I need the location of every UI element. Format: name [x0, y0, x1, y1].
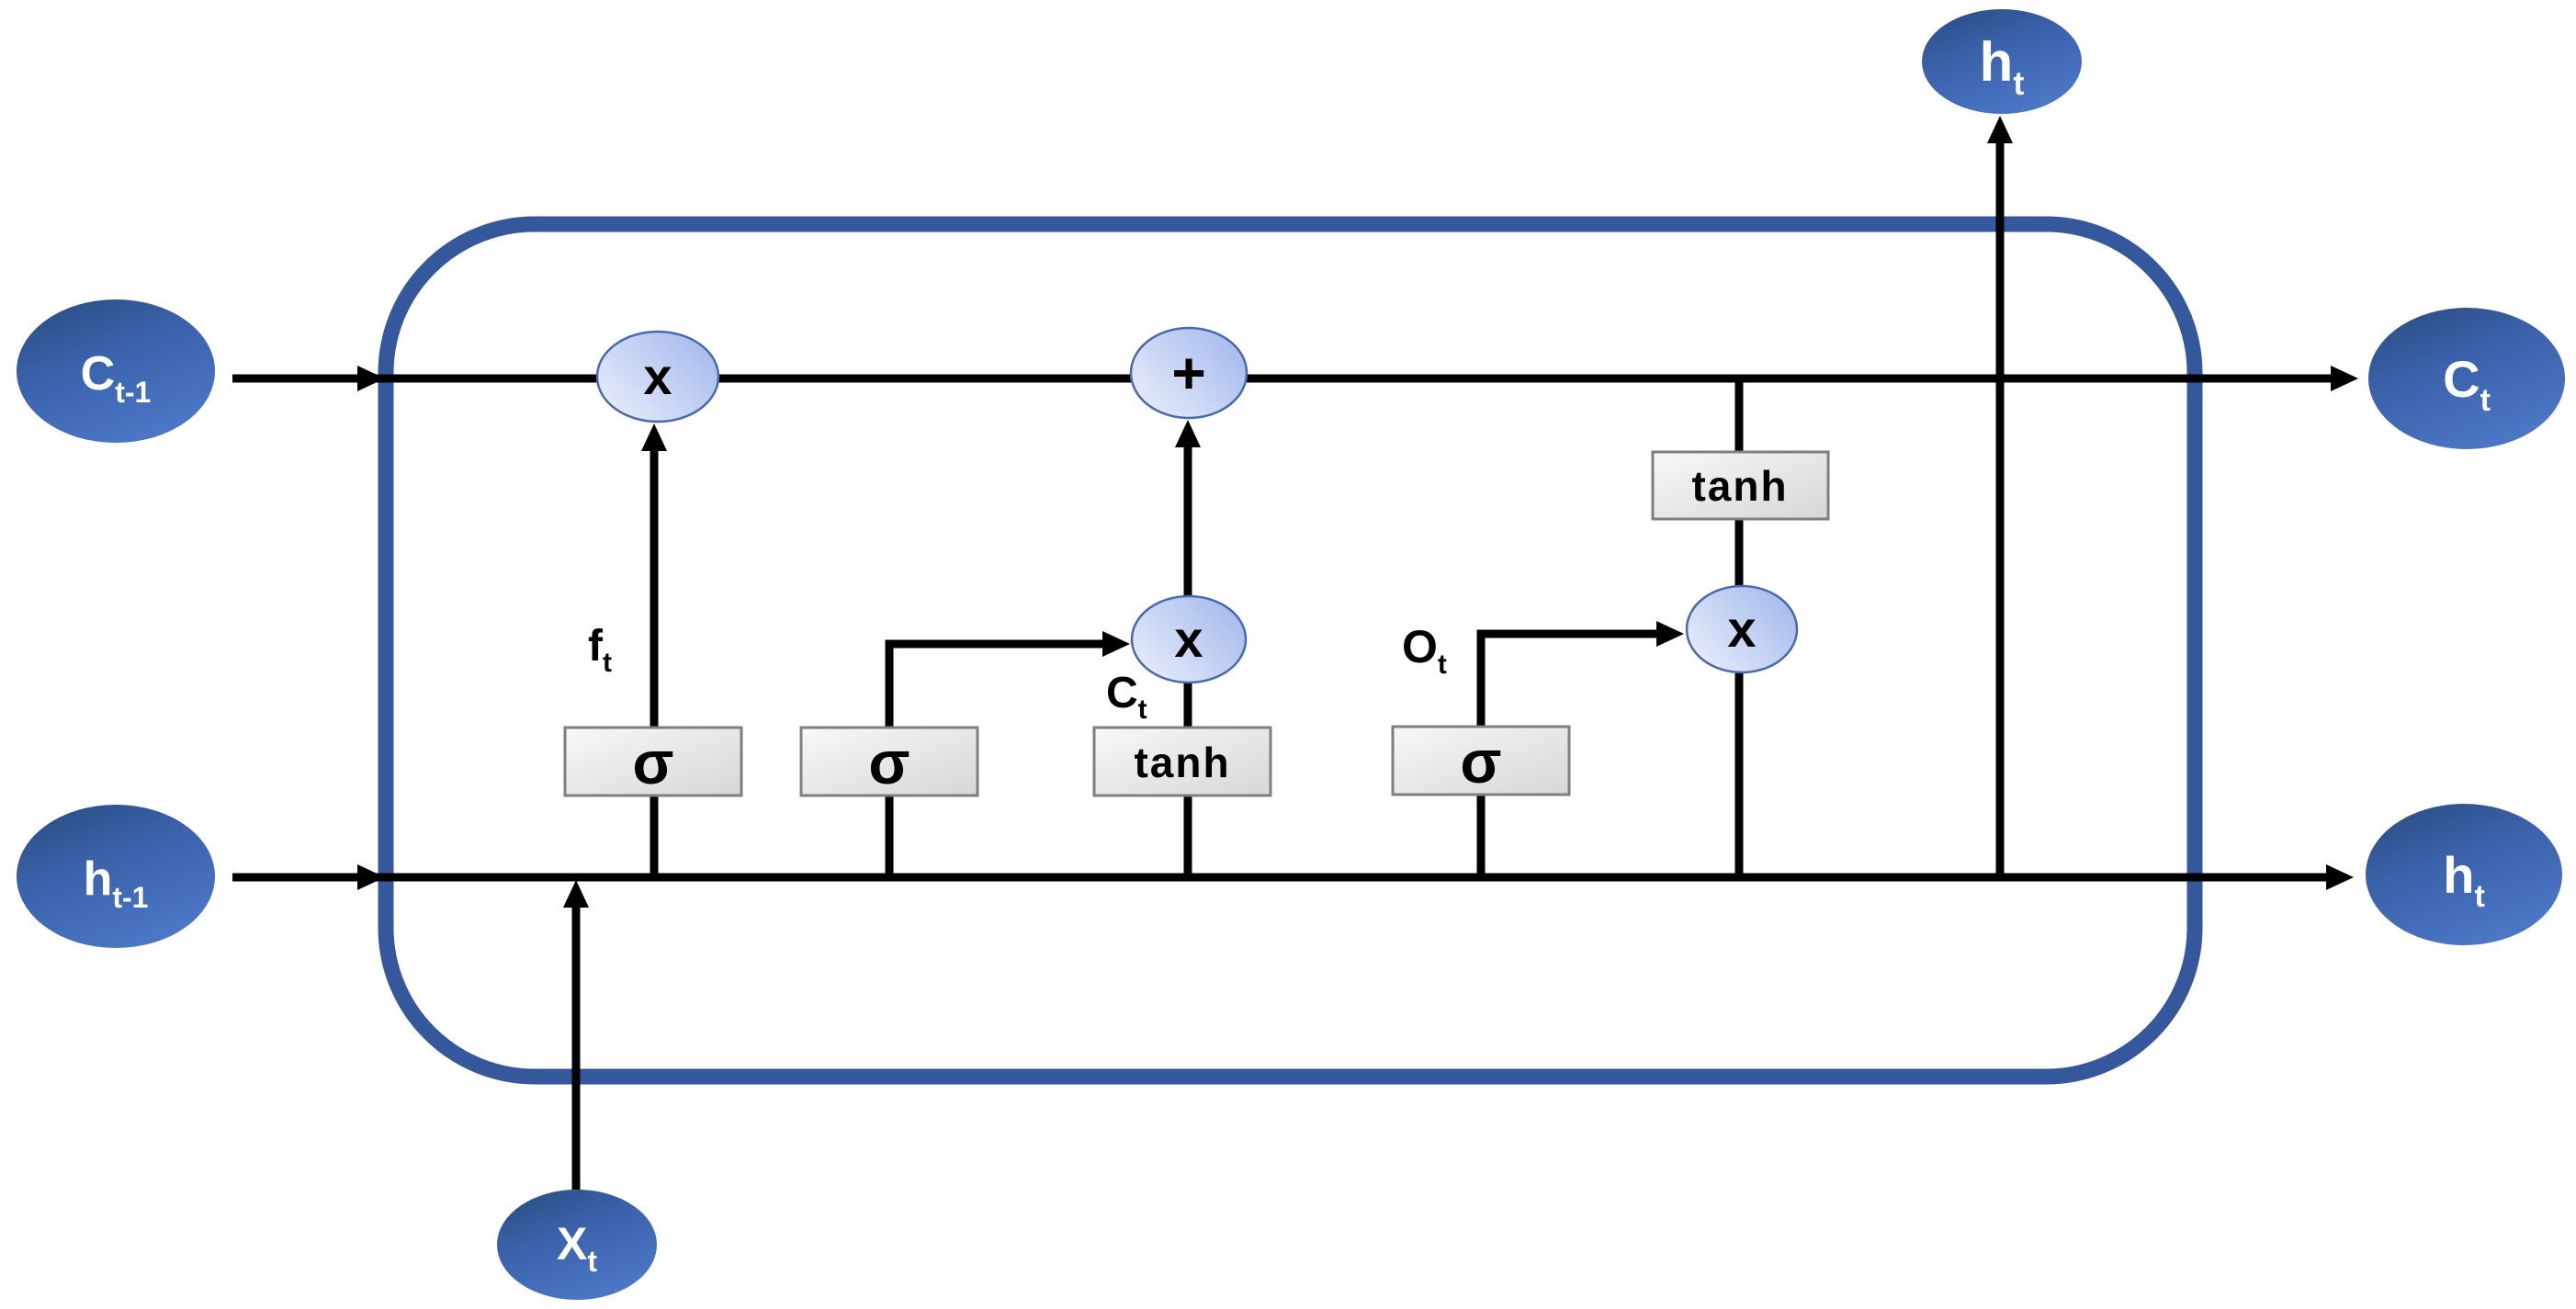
svg-text:Ot: Ot: [1402, 621, 1447, 680]
svg-text:ft: ft: [588, 622, 612, 678]
svg-text:σ: σ: [632, 728, 673, 796]
gate: sigma 3 (output gate): [1393, 727, 1569, 796]
node C_{t-1} input cell state: [17, 299, 215, 443]
svg-text:x: x: [643, 347, 672, 405]
svg-text:+: +: [1171, 340, 1205, 406]
svg-text:Ct: Ct: [1106, 669, 1147, 725]
svg-text:x: x: [1174, 610, 1203, 668]
svg-text:σ: σ: [868, 728, 910, 796]
op: multiply X3 (output): [1687, 586, 1797, 672]
wire: h line junction up to h_t output arrow: [1987, 116, 2013, 877]
op: multiply X1 (forget): [597, 332, 718, 422]
wire: h_{t-1} to h_t main hidden-state line: [232, 864, 2354, 890]
svg-text:x: x: [1727, 600, 1756, 658]
node C_t output cell state: [2368, 308, 2565, 449]
gate: tanh right (cell output squash): [1653, 452, 1828, 519]
node h_t right output hidden state: [2366, 804, 2562, 945]
wire: tanh right box down to multiply X3: [1735, 517, 1744, 588]
op: multiply X2 (input): [1132, 596, 1246, 683]
wire: multiply X3 down to h line: [1735, 673, 1744, 877]
wire: tanh mid box down from h line up to multiply X2: [1184, 683, 1192, 877]
node h_{t-1} input hidden state: [17, 805, 215, 948]
LSTM cell body (rounded rectangle): [386, 224, 2195, 1077]
svg-text:tanh: tanh: [1134, 739, 1230, 786]
wire: output gate sigma elbow to multiply X3 (O_t path): [1481, 621, 1684, 877]
wire: multiply X2 up to add op: [1175, 420, 1201, 596]
node X_t input: [497, 1190, 657, 1300]
svg-text:σ: σ: [1460, 728, 1501, 796]
wire: input gate sigma elbow to multiply X2: [889, 631, 1130, 877]
label f_t: [588, 622, 612, 678]
wire: X_t input up arrow to h line: [563, 880, 589, 1190]
wire: C line junction down to tanh right box: [1735, 378, 1744, 455]
wire: forget gate sigma up to multiply X1 (f_t path): [641, 423, 667, 877]
label C_t (candidate): [1106, 669, 1147, 725]
wire: C_{t-1} to C_t main cell-state line: [232, 366, 2358, 391]
label O_t: [1402, 621, 1447, 680]
gate: sigma 2 (input gate): [801, 728, 977, 796]
gate: sigma 1 (forget gate): [565, 728, 741, 796]
gate: tanh middle (candidate): [1094, 728, 1271, 796]
svg-text:tanh: tanh: [1691, 462, 1788, 510]
node h_t top output: [1922, 9, 2082, 114]
op: add: [1131, 328, 1247, 418]
